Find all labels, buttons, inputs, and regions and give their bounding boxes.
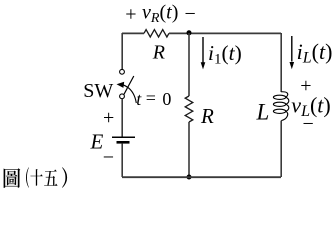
svg-text:+: + xyxy=(103,107,114,129)
svg-text:=: = xyxy=(146,88,156,108)
wire middle branch upper xyxy=(188,33,190,96)
node A (junction dot, top) xyxy=(187,30,192,35)
svg-text:−: − xyxy=(185,3,196,25)
svg-text:0: 0 xyxy=(162,89,171,109)
wire bottom horizontal xyxy=(122,176,281,178)
svg-text:E: E xyxy=(90,130,104,154)
svg-text:vR(t): vR(t) xyxy=(142,1,178,26)
switch SW top terminal xyxy=(120,69,125,74)
wire right branch upper xyxy=(280,33,282,92)
wire left vertical (top corner to switch) xyxy=(121,33,123,69)
battery E positive plate (long) xyxy=(112,136,135,138)
wire switch to battery xyxy=(121,99,123,137)
caption glyph 十 xyxy=(30,169,42,186)
node B (junction dot, bottom) xyxy=(187,175,192,180)
current arrow i1(t) xyxy=(202,37,204,63)
current arrow iL(t) xyxy=(291,36,293,62)
svg-text:R: R xyxy=(152,42,165,64)
wire battery to bottom-left corner xyxy=(121,144,123,177)
caption glyph 圖 xyxy=(4,168,21,188)
inductor L (coil) xyxy=(273,92,288,121)
svg-text:−: − xyxy=(303,113,314,135)
resistor R1 (top, horizontal zigzag) xyxy=(144,30,169,37)
caption glyph ) xyxy=(62,167,67,187)
wire middle branch lower xyxy=(188,122,190,177)
svg-text:L: L xyxy=(256,100,270,125)
caption glyph ( xyxy=(26,167,29,187)
svg-text:t: t xyxy=(136,89,142,109)
svg-text:R: R xyxy=(200,104,214,128)
svg-text:SW: SW xyxy=(83,80,113,102)
switch SW bottom terminal xyxy=(120,94,125,99)
svg-text:iL(t): iL(t) xyxy=(297,39,333,67)
wire right branch lower xyxy=(280,121,282,177)
switch motion arrow (arc) xyxy=(123,85,136,103)
svg-text:i1(t): i1(t) xyxy=(208,41,242,68)
wire top horizontal node A to right corner xyxy=(189,32,281,34)
svg-text:−: − xyxy=(103,146,114,168)
resistor R2 (middle, vertical zigzag) xyxy=(185,96,193,122)
caption glyph 五 xyxy=(44,169,57,185)
battery E negative plate (short) xyxy=(117,141,130,144)
svg-text:+: + xyxy=(125,4,136,26)
wire top horizontal segment to node A xyxy=(169,32,189,34)
switch SW blade xyxy=(124,76,134,95)
wire top-left horizontal segment xyxy=(122,32,144,34)
